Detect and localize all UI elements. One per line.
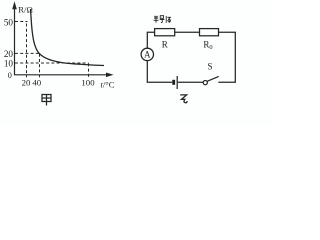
wire top-left: [147, 32, 154, 48]
dashed line t=100: [88, 63, 90, 77]
svg-text:A: A: [144, 50, 151, 60]
ammeter A: [141, 48, 153, 60]
y-axis: [14, 4, 16, 75]
wire battery to switch: [178, 81, 203, 83]
svg-text:20: 20: [22, 78, 31, 88]
svg-text:40: 40: [32, 78, 41, 88]
dashed line t=40: [39, 54, 41, 78]
dashed line t=20: [26, 24, 28, 78]
wire between R and R0: [175, 31, 200, 33]
switch pivot: [203, 81, 207, 85]
dashed line R=10: [15, 62, 89, 64]
svg-text:10: 10: [4, 58, 14, 68]
svg-text:t/°C: t/°C: [101, 79, 115, 89]
resistor R0: [200, 29, 219, 36]
svg-text:0: 0: [8, 71, 12, 80]
y-axis arrow: [12, 1, 17, 9]
svg-text:S: S: [207, 62, 212, 72]
switch lever: [207, 76, 218, 81]
caption jia (left figure): [42, 95, 51, 106]
resistor R: [155, 29, 175, 36]
dashed line R=20: [15, 52, 39, 54]
dashed line R=50: [15, 21, 28, 23]
wire top-right + right side: [218, 32, 235, 82]
ti: [166, 16, 171, 23]
caption yi (right figure): [180, 95, 187, 103]
resistance curve: [31, 9, 105, 66]
battery positive plate: [176, 76, 178, 89]
wire left-bottom: [147, 61, 172, 82]
svg-text:50: 50: [4, 17, 14, 27]
battery negative plate: [172, 80, 175, 85]
svg-text:R/Ω: R/Ω: [18, 4, 33, 14]
label semiconductor (ban-dao-ti): [154, 16, 171, 23]
x-axis: [14, 74, 110, 76]
x-axis arrow: [106, 73, 114, 78]
dao: [160, 16, 165, 23]
svg-text:100: 100: [81, 78, 95, 88]
ban: [154, 16, 159, 23]
svg-text:R: R: [162, 39, 168, 49]
